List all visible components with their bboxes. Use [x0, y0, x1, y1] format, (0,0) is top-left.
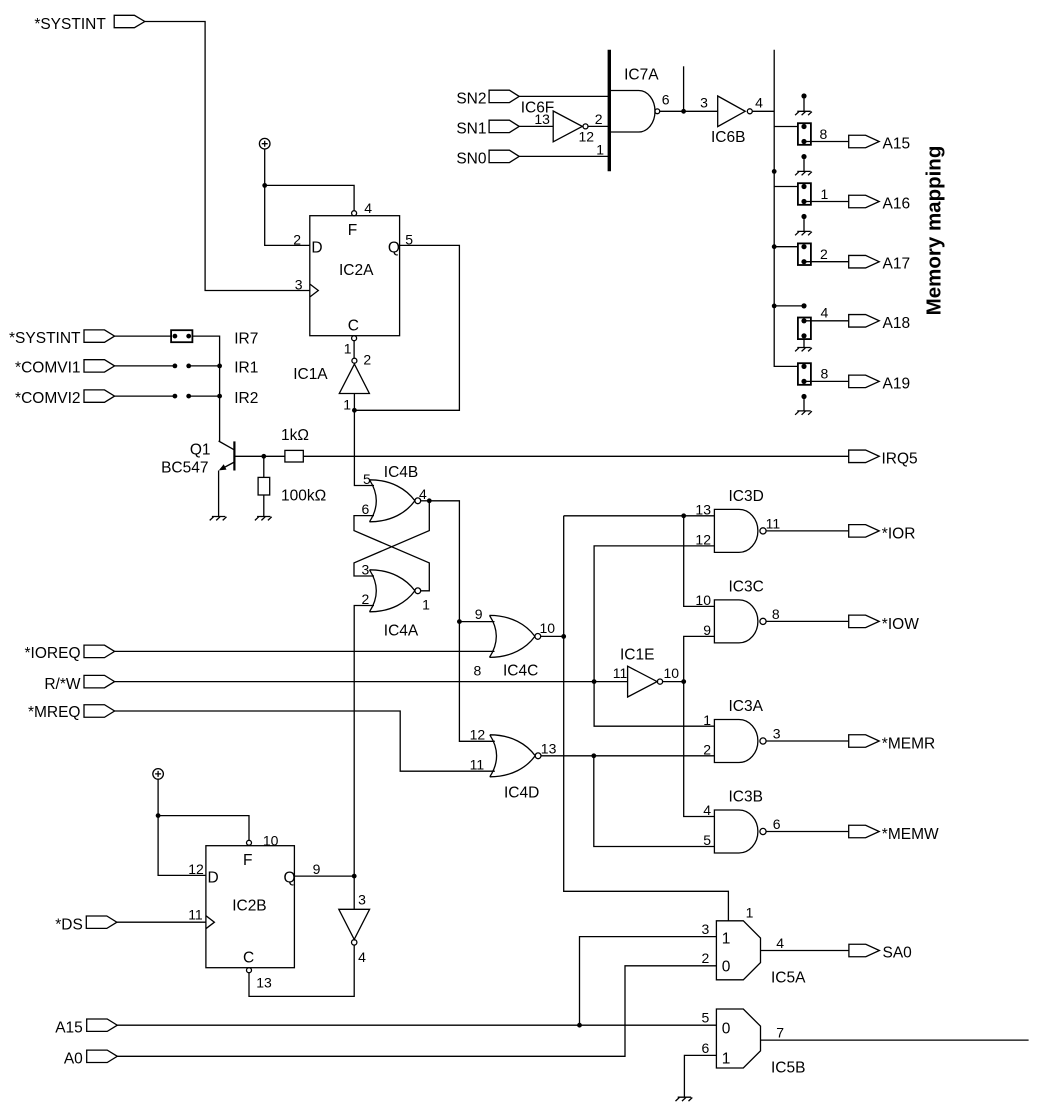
svg-text:C: C	[348, 318, 359, 335]
wire memory-mapping bus	[774, 50, 798, 367]
svg-text:IR7: IR7	[234, 330, 258, 347]
svg-text:C: C	[243, 950, 254, 967]
svg-text:0: 0	[722, 959, 731, 976]
svg-text:SN2: SN2	[456, 91, 486, 108]
input connector SN0	[456, 150, 519, 167]
wire R1 to IRQ5 connector	[303, 455, 848, 457]
ground (JP-A19 spare pin)	[795, 411, 812, 415]
wire IC4B output cross-couple to IC4A pin 3	[354, 501, 429, 576]
input connector *SYSTINT (IR7)	[9, 330, 115, 347]
svg-text:3: 3	[700, 95, 708, 111]
svg-text:IC3B: IC3B	[729, 789, 763, 806]
svg-text:0: 0	[722, 1021, 731, 1038]
ground (JP-A17 spare pin)	[795, 231, 812, 235]
nor gate IC4D	[470, 727, 557, 802]
svg-text:11: 11	[613, 665, 628, 681]
junction IC3D pin 13 row	[681, 513, 686, 518]
svg-text:SN0: SN0	[456, 151, 487, 168]
wire inverted R/*W to IC3C pin 9	[684, 622, 715, 682]
svg-text:Q1: Q1	[190, 442, 211, 459]
svg-text:*MREQ: *MREQ	[28, 704, 81, 721]
svg-text:3: 3	[358, 892, 366, 908]
svg-text:A0: A0	[64, 1051, 83, 1068]
wire IC3B output to *MEMW	[766, 831, 849, 833]
jumper cap JP-A19	[798, 363, 811, 385]
svg-text:4: 4	[755, 95, 763, 111]
svg-text:IC5B: IC5B	[771, 1060, 805, 1077]
svg-text:IC3D: IC3D	[729, 488, 764, 505]
junction V+ branch	[262, 183, 267, 188]
output connector *IOR	[849, 525, 916, 543]
inverter IC1E	[613, 647, 679, 698]
input connector *SYSTINT (top)	[34, 15, 144, 33]
svg-text:IC6B: IC6B	[711, 129, 745, 146]
jumper JP-A15	[801, 93, 806, 111]
svg-text:10: 10	[540, 620, 556, 636]
svg-text:1: 1	[344, 340, 352, 356]
wire JP-A16 to A16 connector, pin 1	[804, 186, 849, 202]
resistor R2 100k	[258, 477, 326, 504]
input connector *COMVI2 (IR2)	[15, 390, 115, 407]
jumper JP-A19 bottom pin	[801, 394, 806, 411]
svg-text:13: 13	[256, 975, 272, 991]
svg-text:*COMVI1: *COMVI1	[15, 360, 80, 377]
inverter IC1B	[339, 892, 370, 965]
wire JP-A19 to A19 connector, pin 8	[804, 366, 849, 382]
nor gate IC4B	[362, 464, 428, 522]
svg-text:13: 13	[534, 111, 550, 127]
junction rail IR1	[217, 364, 222, 369]
transistor Q1 BC547	[161, 441, 264, 476]
svg-text:1: 1	[746, 905, 754, 921]
nand gate IC7A (3-input with input bar)	[609, 50, 669, 172]
wire SN0 to IC7A pin 1	[519, 141, 609, 157]
wire SN2 to IC7A pin (top input)	[519, 95, 609, 97]
svg-text:1: 1	[821, 186, 829, 202]
wire R/*W to IC3D pin 12 and IC3A pin 1	[594, 532, 714, 728]
wire IC2B Q output	[294, 875, 354, 877]
jumper JP-A17	[801, 214, 806, 232]
nor gate IC4A	[370, 570, 431, 640]
wire IC4B output to junction	[421, 500, 430, 502]
junction IC7A output	[681, 109, 686, 114]
wire IC4B output to IC4C pin 9 and IC4D pin 12	[429, 501, 495, 742]
svg-text:10: 10	[664, 665, 680, 681]
svg-text:6: 6	[362, 501, 370, 517]
svg-text:6: 6	[662, 91, 670, 107]
wire *COMVI2 to jumper IR2 pin	[115, 395, 175, 397]
wire IC4C output to select rail	[541, 635, 564, 637]
wire JP-IR2 to interrupt rail	[189, 395, 220, 397]
jumper JP-IR2 (open)	[173, 394, 192, 399]
wire A0 to IC5A pin 2	[117, 966, 716, 1057]
inverter IC6B	[700, 95, 763, 147]
svg-text:8: 8	[772, 606, 780, 622]
svg-text:8: 8	[821, 366, 829, 382]
svg-text:2: 2	[703, 742, 711, 758]
svg-text:1: 1	[596, 141, 604, 157]
wire IO-strobe rail (IC3D pin13 row down to IC5A select)	[564, 516, 729, 921]
wire IC2A Q output feedback	[354, 245, 459, 410]
svg-text:*SYSTINT: *SYSTINT	[34, 16, 106, 33]
wire JP-A17 to A17 connector, pin 2	[804, 246, 849, 262]
svg-text:4: 4	[358, 949, 366, 965]
svg-text:3: 3	[702, 921, 710, 937]
svg-text:A15: A15	[55, 1019, 83, 1036]
svg-text:12: 12	[188, 861, 204, 877]
svg-text:1: 1	[722, 1051, 731, 1068]
wire V+ branch to IC2A F pin	[265, 185, 354, 210]
jumper JP-A16	[801, 154, 806, 171]
svg-text:6: 6	[702, 1040, 710, 1056]
svg-text:IC7A: IC7A	[624, 67, 659, 84]
svg-text:2: 2	[595, 111, 603, 127]
svg-text:11: 11	[188, 907, 203, 923]
input connector R/*W	[44, 675, 114, 692]
svg-text:9: 9	[703, 622, 711, 638]
wire bus to JP-A16	[774, 186, 798, 188]
junction IC1E output	[681, 679, 686, 684]
wire bus to JP-A17	[774, 246, 798, 248]
output connector A19	[849, 375, 910, 392]
ground (Q1 emitter)	[210, 517, 227, 521]
input connector SN2	[456, 90, 519, 107]
junction V+ branch IC2B	[156, 813, 161, 818]
svg-text:13: 13	[695, 502, 711, 518]
svg-text:Memory mapping: Memory mapping	[923, 146, 946, 316]
svg-text:Q: Q	[284, 870, 296, 887]
input connector *MREQ	[28, 704, 115, 721]
wire SN1 to IC6F input	[519, 125, 553, 127]
wire *SYSTINT to IC2A clock	[145, 22, 310, 291]
svg-text:3: 3	[295, 277, 303, 293]
wire V+ branch to IC2B F pin	[158, 816, 249, 841]
svg-text:5: 5	[703, 832, 711, 848]
svg-text:*COMVI2: *COMVI2	[15, 390, 80, 407]
svg-text:3: 3	[773, 726, 781, 742]
svg-text:D: D	[311, 240, 322, 257]
mux IC5B	[702, 1009, 806, 1077]
output connector *MEMR	[849, 735, 935, 753]
wire Q1 emitter to ground	[218, 471, 220, 517]
svg-text:IRQ5: IRQ5	[882, 451, 918, 468]
svg-text:*MEMW: *MEMW	[882, 826, 939, 843]
wire IC6F output to IC7A bar	[588, 125, 609, 127]
output connector A18	[849, 315, 910, 332]
wire IC5B pin 6 from ground	[676, 1055, 717, 1101]
svg-text:IC1A: IC1A	[293, 366, 328, 383]
svg-text:A16: A16	[883, 195, 911, 212]
junction Q feedback node	[352, 408, 357, 413]
inverter IC1A	[293, 352, 371, 413]
svg-text:IR2: IR2	[234, 390, 258, 407]
svg-text:IC4C: IC4C	[503, 663, 538, 680]
svg-text:4: 4	[364, 200, 372, 216]
wire IC1B output back to IC2B C pin	[249, 945, 354, 996]
svg-text:9: 9	[475, 606, 483, 622]
flip-flop IC2A	[293, 200, 413, 356]
wire R2 to ground	[263, 495, 265, 517]
svg-text:*DS: *DS	[55, 916, 83, 933]
svg-text:13: 13	[541, 740, 557, 756]
junction IC4C pin 9	[457, 619, 462, 624]
nand gate IC3D	[714, 488, 780, 553]
junction IC4B output	[427, 498, 432, 503]
wire V+ to IC2B D input	[158, 779, 206, 875]
nand gate IC3B	[714, 789, 780, 854]
svg-text:IC4D: IC4D	[504, 784, 539, 801]
output connector *MEMW	[849, 825, 939, 843]
svg-text:2: 2	[363, 352, 371, 368]
input connector *COMVI1 (IR1)	[15, 360, 115, 377]
jumper JP-A18 top pin	[801, 303, 806, 308]
wire IC3A output to *MEMR	[766, 740, 849, 742]
svg-text:11: 11	[470, 757, 485, 773]
ground (R2)	[255, 517, 272, 521]
jumper cap JP-A16	[798, 183, 811, 205]
jumper cap JP-A18	[798, 318, 811, 340]
power V+ (IC2A preset)	[259, 138, 270, 149]
svg-text:Q: Q	[388, 240, 400, 257]
wire IC1E output to node	[663, 681, 684, 683]
svg-text:10: 10	[263, 832, 279, 848]
svg-text:BC547: BC547	[161, 459, 208, 476]
jumper cap JP-IR7	[171, 330, 192, 342]
junction IC2B Q node	[352, 874, 357, 879]
output connector *IOW	[849, 615, 919, 633]
wire JP-IR7 to interrupt rail	[192, 336, 219, 441]
svg-text:IC3A: IC3A	[729, 698, 764, 715]
svg-text:3: 3	[362, 561, 370, 577]
svg-text:100kΩ: 100kΩ	[281, 487, 326, 504]
svg-text:1kΩ: 1kΩ	[281, 427, 309, 444]
wire IC4A output cross-couple to IC4B pin 6	[354, 516, 429, 591]
wire R/*W to IC1E input	[115, 681, 628, 683]
wire IO-strobe to IC3D pin 13	[564, 502, 715, 518]
svg-text:12: 12	[695, 532, 711, 548]
wire IC4D output to IC3A pin 2	[541, 755, 714, 757]
svg-text:*IOW: *IOW	[882, 616, 919, 633]
junction MEM-strobe rail	[591, 753, 596, 758]
wire inverted R/*W to IC3B pin 4	[684, 682, 715, 819]
svg-text:*IOR: *IOR	[882, 526, 916, 543]
output connector A15	[849, 135, 910, 152]
svg-text:F: F	[243, 852, 252, 869]
svg-text:SA0: SA0	[883, 945, 913, 962]
output connector SA0	[849, 944, 912, 961]
wire IC3D output to *IOR	[766, 530, 849, 532]
junction IC4C output	[561, 634, 566, 639]
input connector A0	[64, 1050, 117, 1067]
output connector A17	[849, 255, 910, 272]
svg-text:*IOREQ: *IOREQ	[25, 645, 81, 662]
wire *MREQ to IC4D pin 11	[115, 711, 495, 771]
svg-text:2: 2	[820, 246, 828, 262]
svg-text:4: 4	[776, 935, 784, 951]
svg-text:4: 4	[821, 304, 829, 320]
wire IC2A C pin to IC1A output	[353, 341, 355, 359]
junction Q1 base node	[261, 454, 266, 459]
wire JP-A15 to A15 connector, pin 8	[804, 126, 849, 142]
svg-text:IC2B: IC2B	[232, 898, 266, 915]
ground (JP-A16 spare pin)	[795, 171, 812, 175]
resistor R1 1k	[281, 427, 309, 462]
junction rail IR2	[217, 394, 222, 399]
svg-text:A17: A17	[883, 255, 911, 272]
wire A15 branch to IC5A pin 3	[580, 937, 717, 1026]
svg-text:5: 5	[702, 1010, 710, 1026]
wire IC5B output, pin 7	[761, 1024, 1029, 1040]
svg-text:5: 5	[363, 471, 371, 487]
wire *DS to IC2B clock	[117, 921, 206, 923]
junction R/*W rail	[592, 679, 597, 684]
output connector A16	[849, 195, 910, 212]
svg-text:1: 1	[703, 712, 711, 728]
wire IC3C output to *IOW	[766, 620, 849, 622]
svg-text:IR1: IR1	[234, 360, 258, 377]
svg-text:6: 6	[773, 816, 781, 832]
mux IC5A	[702, 905, 807, 987]
svg-text:9: 9	[313, 861, 321, 877]
nor gate IC4C	[490, 615, 556, 679]
svg-text:A18: A18	[883, 315, 911, 332]
svg-text:IC4A: IC4A	[384, 622, 419, 639]
svg-text:IC1E: IC1E	[620, 647, 654, 664]
input connector *IOREQ	[25, 645, 115, 662]
power V+ (IC2B preset)	[153, 769, 164, 780]
svg-text:1: 1	[722, 931, 731, 948]
wire IC4A pin 2 from IC2B Q rail	[354, 606, 374, 877]
junction bus at A16 ground row	[772, 169, 777, 174]
svg-text:R/*W: R/*W	[44, 676, 81, 693]
node stub above IC7A output	[683, 66, 685, 111]
svg-text:2: 2	[362, 591, 370, 607]
nand gate IC3A	[714, 698, 780, 762]
svg-text:1: 1	[422, 596, 430, 612]
svg-text:10: 10	[695, 592, 711, 608]
svg-text:2: 2	[702, 950, 710, 966]
svg-text:IC3C: IC3C	[729, 578, 764, 595]
svg-text:A19: A19	[883, 375, 911, 392]
wire A15 to IC5B pin 5	[117, 1024, 716, 1026]
input connector *DS	[55, 916, 117, 933]
jumper cap JP-A15	[798, 123, 811, 145]
wire JP-IR1 to interrupt rail	[189, 365, 220, 367]
svg-text:12: 12	[470, 727, 486, 743]
junction bus at A18 branch	[772, 304, 777, 309]
svg-text:8: 8	[820, 126, 828, 142]
junction A15 branch	[577, 1023, 582, 1028]
wire IO-strobe branch to IC3C pin 10	[684, 516, 715, 608]
wire IC7A output to IC6B input	[660, 110, 718, 112]
svg-text:IC2A: IC2A	[339, 262, 374, 279]
jumper cap JP-A17	[798, 243, 811, 265]
wire bus to JP-A15	[774, 126, 798, 128]
svg-text:1: 1	[343, 397, 351, 413]
jumper JP-IR1 (open)	[173, 364, 192, 369]
wire junction to IC4C pin 9	[459, 606, 494, 622]
wire IC6B output to mapping bus	[752, 110, 774, 112]
svg-text:F: F	[348, 222, 357, 239]
ground (JP-A15 spare pin)	[795, 111, 812, 115]
wire V+ to IC2A D input	[265, 149, 310, 245]
wire IC5A output to SA0, pin 4	[761, 935, 849, 951]
wire *SYSTINT to jumper IR7	[115, 335, 172, 337]
svg-text:4: 4	[419, 486, 427, 502]
svg-text:IC4B: IC4B	[384, 464, 418, 481]
svg-text:2: 2	[293, 231, 301, 247]
wire IC1A input from Q node down to IC4B pin 5	[354, 394, 374, 486]
wire JP-A18 to A18 connector, pin 4	[804, 304, 849, 321]
ground (JP-A18)	[795, 339, 812, 351]
nand gate IC3C	[714, 578, 780, 643]
svg-text:IC5A: IC5A	[771, 970, 806, 987]
svg-text:8: 8	[474, 663, 482, 679]
svg-text:*SYSTINT: *SYSTINT	[9, 330, 81, 347]
wire MEM-strobe to IC3B pin 5	[594, 742, 715, 849]
svg-text:7: 7	[776, 1024, 784, 1040]
wire Q node to IC1B input	[353, 876, 355, 909]
output connector IRQ5	[849, 450, 918, 468]
wire bus to JP-A18 top pin	[774, 305, 804, 307]
inverter IC6F	[521, 100, 603, 145]
input connector SN1	[456, 120, 519, 137]
wire base node to R2	[263, 456, 265, 477]
svg-text:4: 4	[703, 802, 711, 818]
junction bus at A17 branch	[772, 244, 777, 249]
wire *COMVI1 to jumper IR1 pin	[115, 365, 175, 367]
flip-flop IC2B	[188, 832, 320, 990]
svg-text:D: D	[208, 870, 219, 887]
svg-text:SN1: SN1	[456, 121, 486, 138]
svg-text:*MEMR: *MEMR	[882, 736, 935, 753]
svg-text:A15: A15	[883, 135, 911, 152]
wire *IOREQ to IC4C pin 8	[115, 651, 495, 678]
svg-text:12: 12	[579, 129, 595, 145]
wire base node to R1	[264, 455, 285, 457]
input connector A15	[55, 1019, 117, 1036]
svg-text:11: 11	[766, 515, 781, 531]
